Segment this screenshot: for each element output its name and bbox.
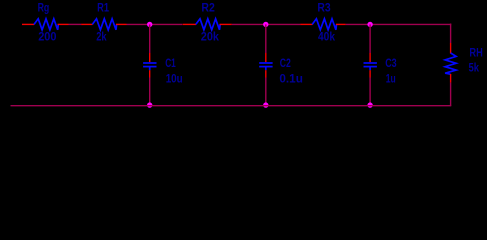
wire R3 to right corner through node 3 <box>346 23 452 25</box>
wire C2 down to node 2 bottom <box>265 78 267 106</box>
wire bottom rail <box>11 105 452 107</box>
junction dot node 2 top <box>263 22 268 27</box>
resistor Rg <box>33 19 68 30</box>
wire node 1 down to C1 <box>149 24 151 53</box>
resistor R2 <box>183 19 232 30</box>
resistor R1 <box>81 19 126 30</box>
junction dot node 1 top <box>147 22 152 27</box>
svg-text:20k: 20k <box>201 30 219 44</box>
wire R1 to R2 through node 1 <box>127 23 183 25</box>
junction dot node 3 bottom <box>367 102 372 107</box>
wire node 3 down to C3 <box>369 24 371 53</box>
wire Rg to R1 <box>69 23 82 25</box>
resistor RH (load) <box>445 43 456 83</box>
svg-text:RH: RH <box>469 46 482 60</box>
svg-text:C1: C1 <box>165 56 176 70</box>
svg-text:Rg: Rg <box>38 1 50 15</box>
wire C1 down to node 1 bottom <box>149 78 151 106</box>
svg-text:R2: R2 <box>201 1 215 15</box>
svg-text:R3: R3 <box>317 1 331 15</box>
junction dot node 2 bottom <box>263 102 268 107</box>
junction dot node 3 top <box>367 22 372 27</box>
wire input stub left <box>22 23 34 25</box>
svg-text:R1: R1 <box>97 1 109 15</box>
svg-text:10u: 10u <box>166 72 183 86</box>
svg-text:40k: 40k <box>318 30 335 44</box>
capacitor C1 <box>143 53 156 78</box>
wire R2 to R3 through node 2 <box>232 23 301 25</box>
resistor R3 <box>300 19 345 30</box>
svg-text:C2: C2 <box>280 56 291 70</box>
svg-text:C3: C3 <box>385 56 397 70</box>
wire C3 down to node 3 bottom <box>369 78 371 106</box>
capacitor C3 <box>364 53 377 78</box>
svg-text:2k: 2k <box>96 30 107 44</box>
svg-text:200: 200 <box>38 30 57 44</box>
svg-text:5k: 5k <box>469 61 480 75</box>
capacitor C2 <box>259 53 272 78</box>
wire RH down to bottom rail <box>450 83 452 107</box>
svg-text:1u: 1u <box>386 72 396 86</box>
junction dot node 1 bottom <box>147 102 152 107</box>
wire node 2 down to C2 <box>265 24 267 53</box>
svg-text:0.1u: 0.1u <box>279 72 303 86</box>
wire top right corner down to RH <box>450 24 452 44</box>
